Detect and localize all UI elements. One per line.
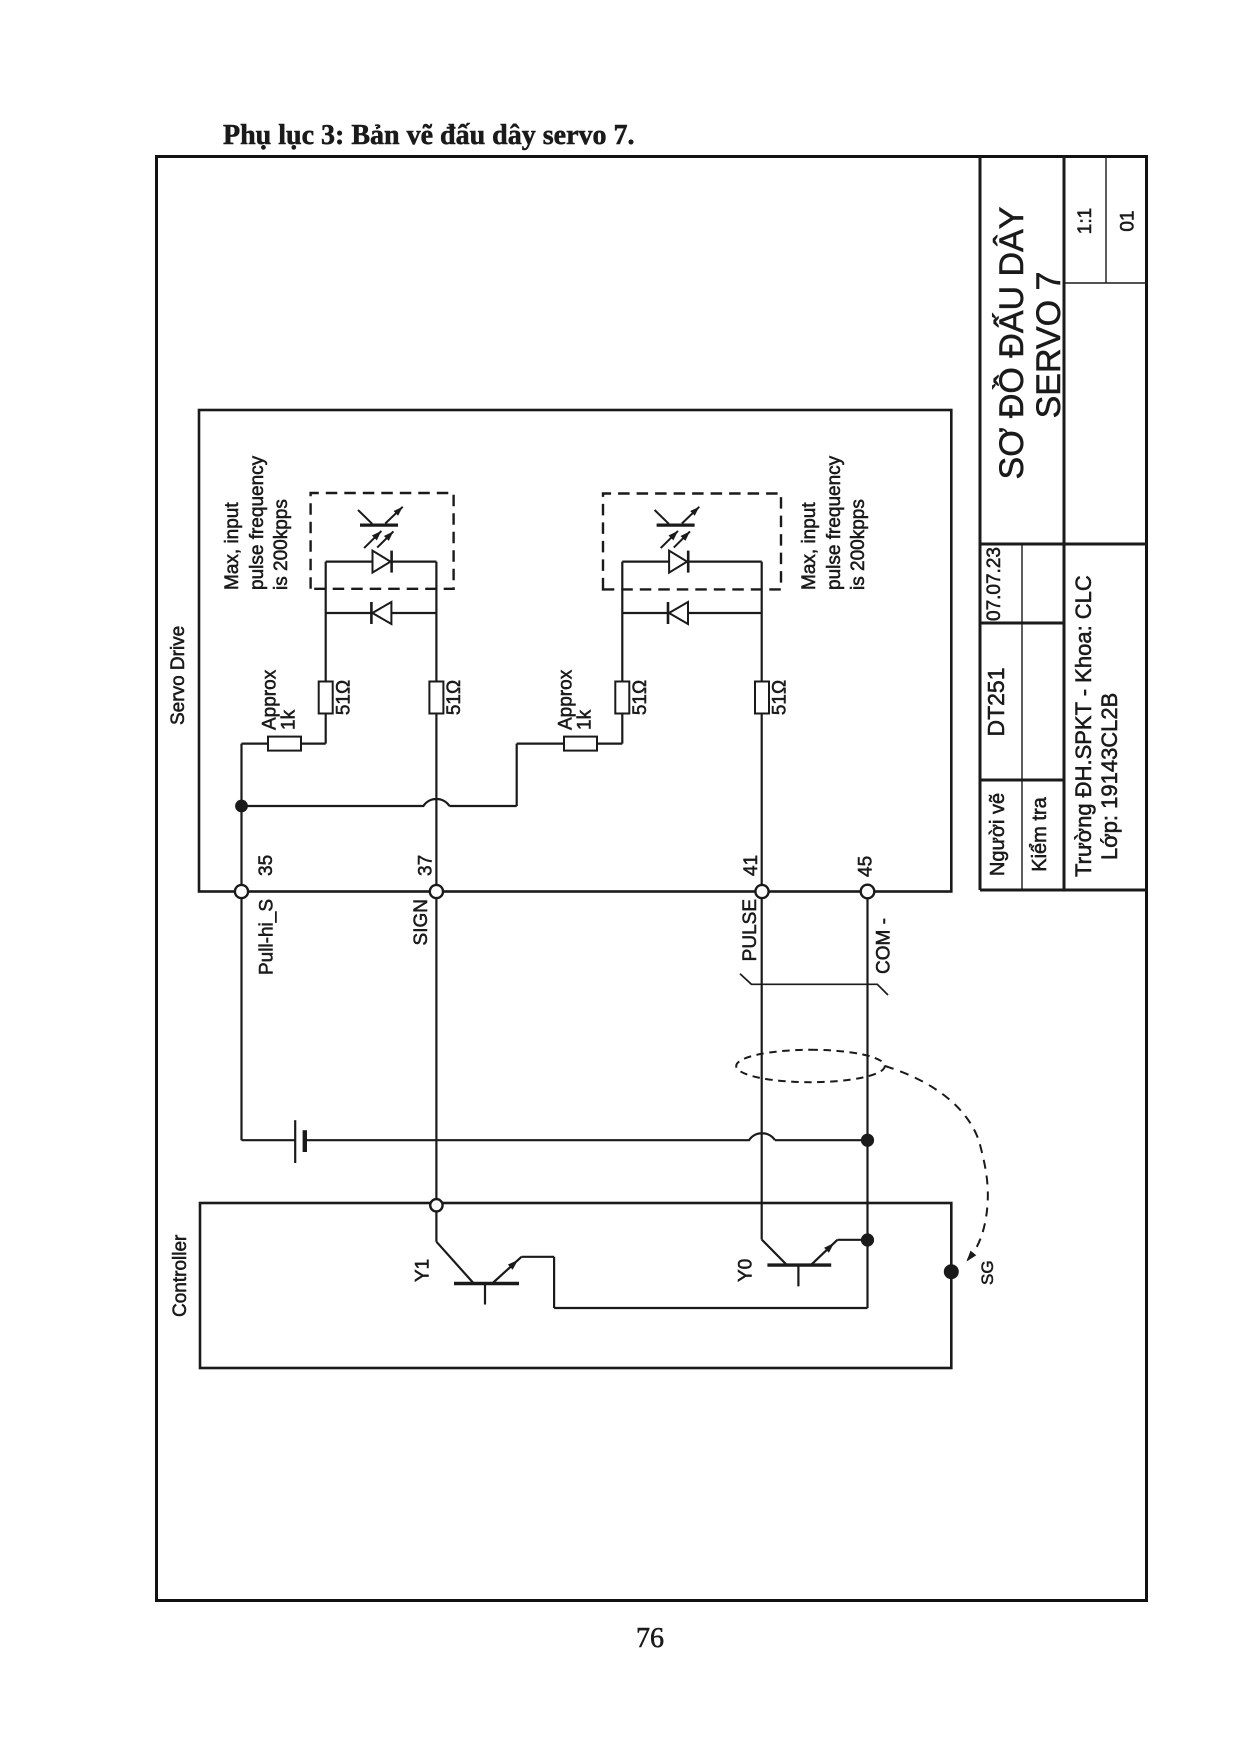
svg-text:51Ω: 51Ω (630, 680, 651, 715)
svg-text:51Ω: 51Ω (334, 680, 355, 715)
svg-text:Approx: Approx (556, 669, 577, 730)
svg-text:07.07.23: 07.07.23 (984, 547, 1005, 621)
svg-text:COM -: COM - (874, 918, 895, 974)
svg-text:45: 45 (856, 856, 877, 877)
svg-text:SƠ ĐỒ ĐẤU DÂY: SƠ ĐỒ ĐẤU DÂY (993, 207, 1031, 480)
svg-text:SIGN: SIGN (411, 899, 432, 945)
svg-text:PULSE: PULSE (740, 899, 761, 961)
svg-text:Controller: Controller (170, 1234, 191, 1317)
svg-text:Approx: Approx (260, 669, 281, 730)
svg-text:01: 01 (1118, 210, 1139, 231)
svg-text:DT251: DT251 (983, 667, 1009, 736)
svg-text:Trường ĐH.SPKT - Khoa: CLC: Trường ĐH.SPKT - Khoa: CLC (1071, 575, 1096, 877)
svg-text:Phụ lục 3: Bản vẽ đấu dây serv: Phụ lục 3: Bản vẽ đấu dây servo 7. (223, 120, 635, 151)
svg-text:Kiểm tra: Kiểm tra (1029, 796, 1051, 871)
svg-text:41: 41 (741, 855, 762, 876)
svg-text:35: 35 (256, 855, 277, 876)
svg-text:pulse frequency: pulse frequency (824, 455, 845, 590)
svg-text:Y1: Y1 (413, 1259, 434, 1282)
svg-text:is 200kpps: is 200kpps (271, 499, 292, 590)
svg-text:Servo Drive: Servo Drive (168, 626, 189, 725)
svg-text:37: 37 (415, 855, 436, 876)
svg-text:51Ω: 51Ω (444, 680, 465, 715)
svg-text:76: 76 (636, 1623, 664, 1654)
svg-text:Lớp: 19143CL2B: Lớp: 19143CL2B (1097, 693, 1122, 860)
svg-text:Người vẽ: Người vẽ (987, 793, 1009, 876)
svg-text:51Ω: 51Ω (770, 680, 791, 715)
svg-text:SERVO 7: SERVO 7 (1030, 272, 1068, 419)
svg-text:Y0: Y0 (736, 1259, 757, 1282)
svg-text:1:1: 1:1 (1075, 208, 1096, 234)
svg-text:SG: SG (978, 1260, 997, 1285)
svg-text:1k: 1k (575, 709, 596, 730)
svg-text:is 200kpps: is 200kpps (848, 499, 869, 590)
svg-text:Max, input: Max, input (222, 502, 243, 590)
svg-text:1k: 1k (279, 709, 300, 730)
svg-text:pulse frequency: pulse frequency (247, 455, 268, 590)
svg-text:Pull-hi_S: Pull-hi_S (257, 899, 278, 975)
svg-text:Max, input: Max, input (799, 502, 820, 590)
